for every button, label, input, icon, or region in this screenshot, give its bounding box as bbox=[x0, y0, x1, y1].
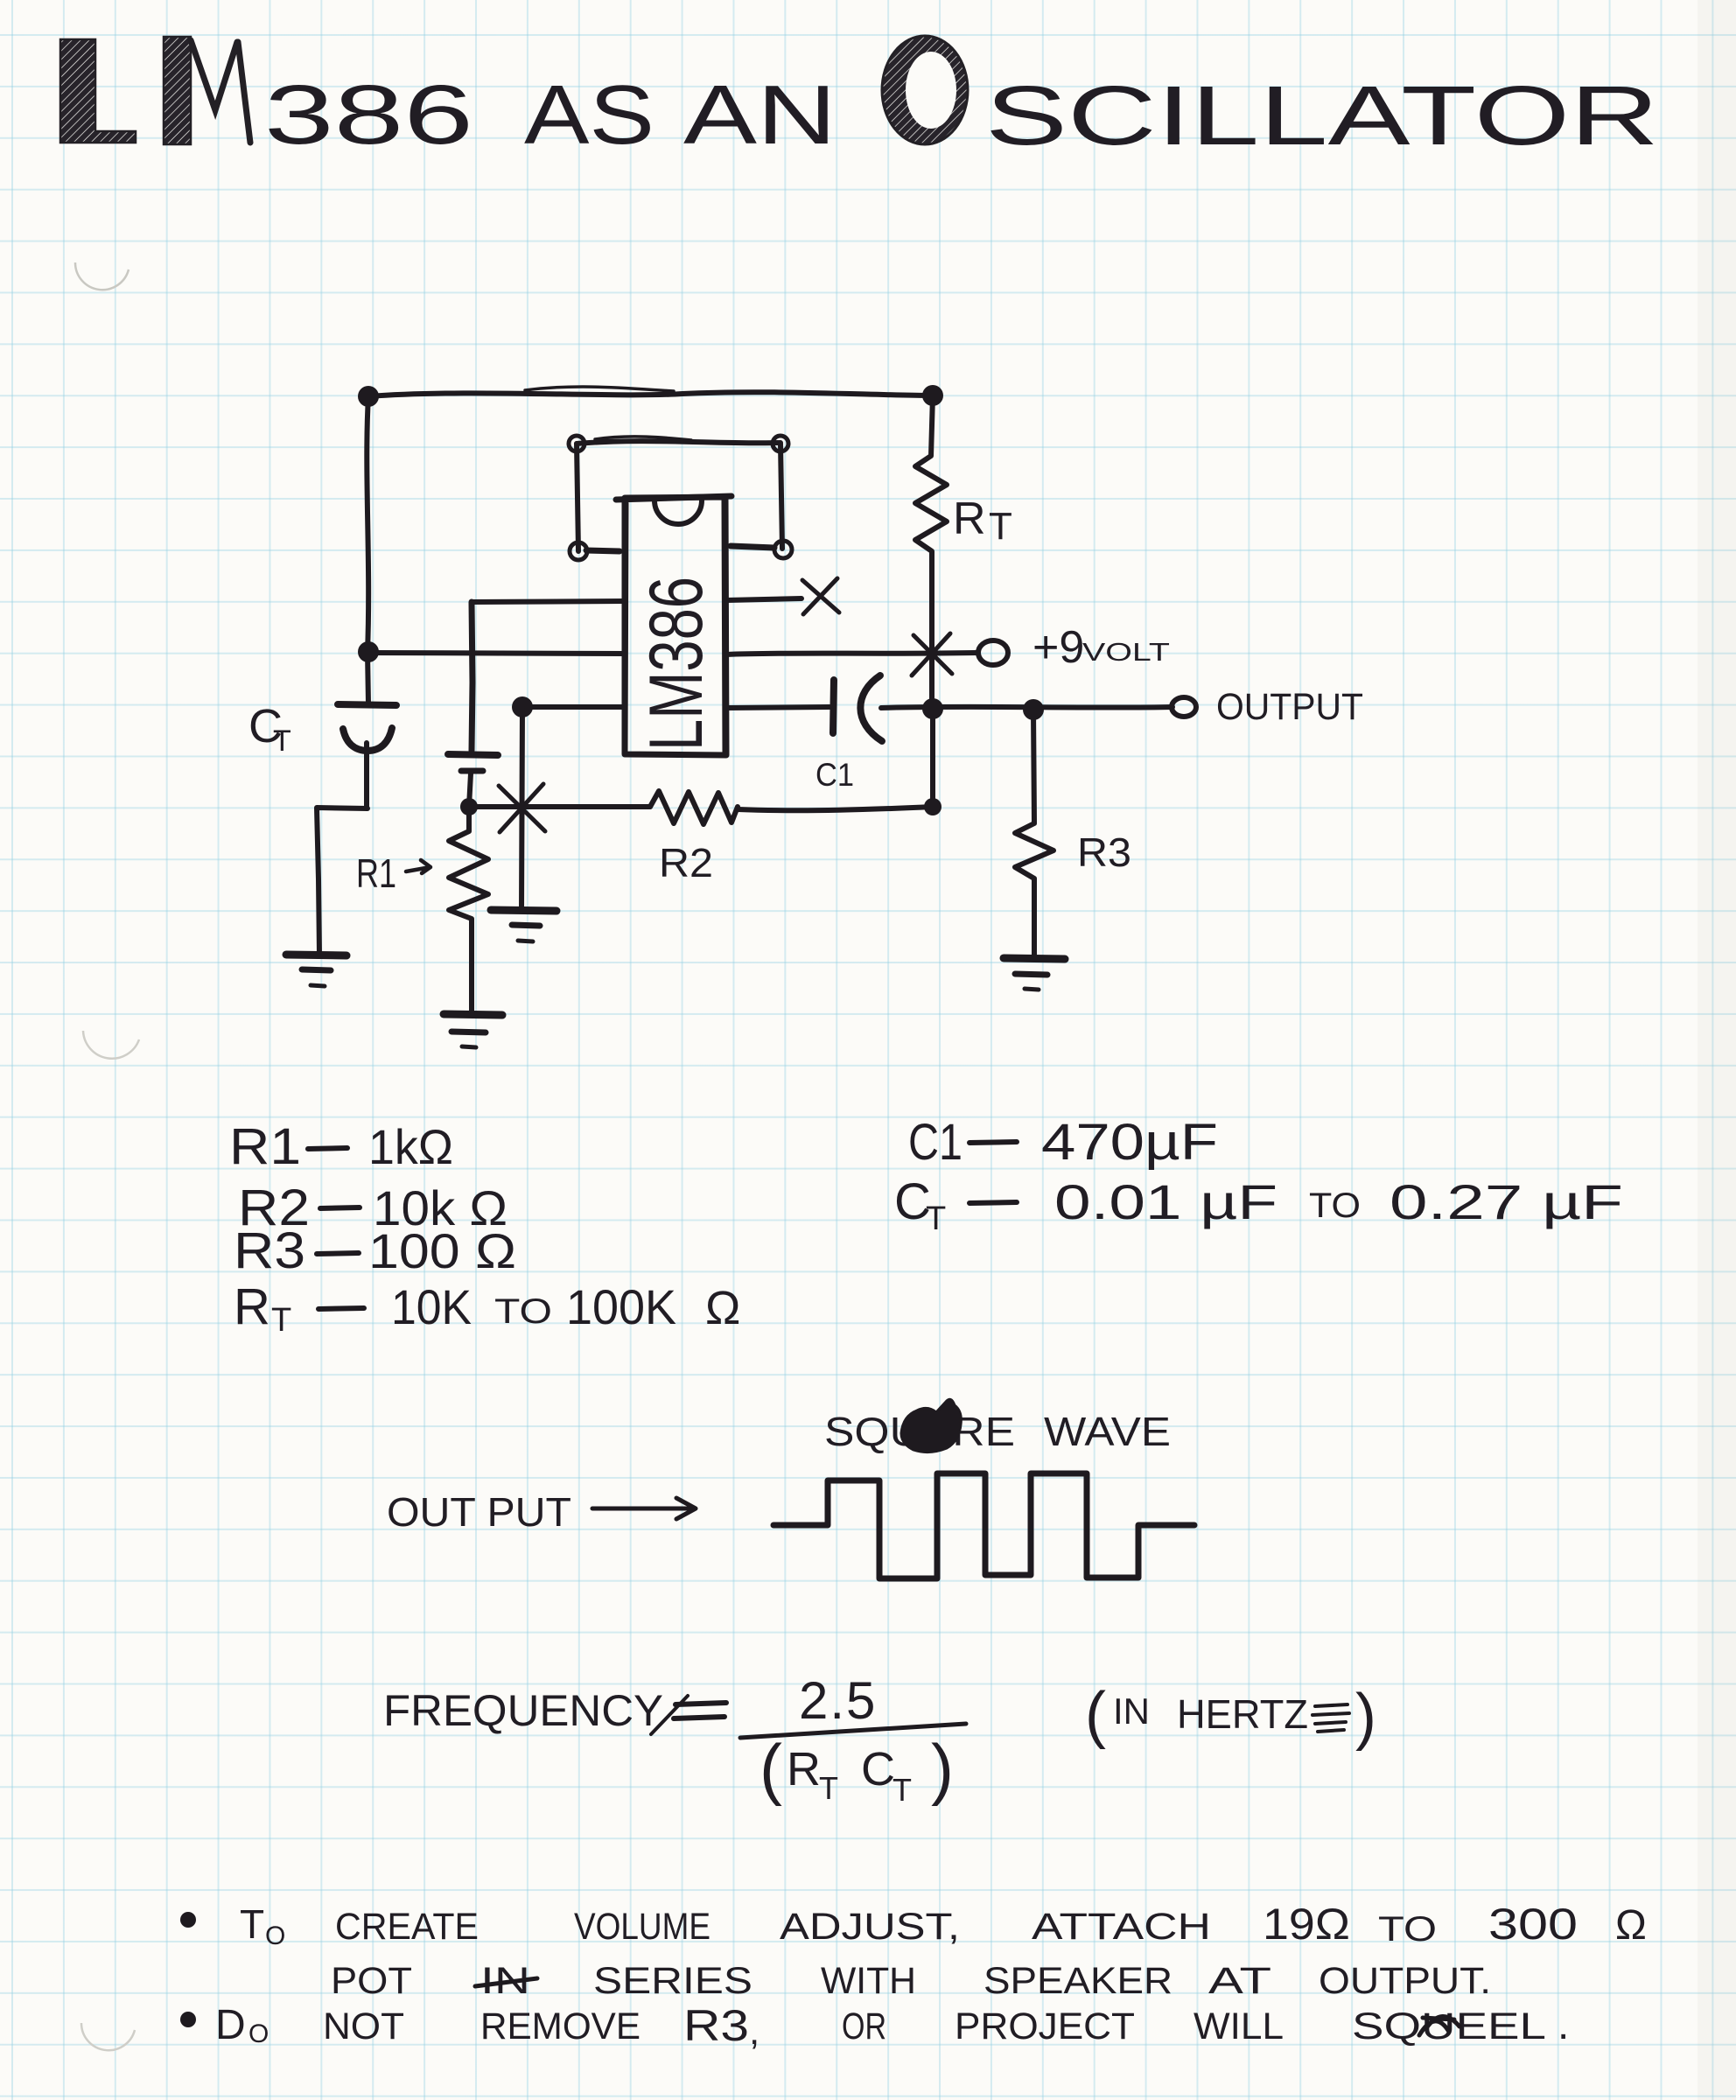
wire pin1 stub bbox=[586, 550, 619, 551]
svg-text:LM386: LM386 bbox=[634, 577, 718, 751]
svg-text:10K: 10K bbox=[391, 1279, 472, 1334]
svg-text:R3: R3 bbox=[683, 2001, 749, 2050]
wire pin5 output left bbox=[521, 704, 625, 710]
svg-text:NOT: NOT bbox=[323, 2005, 404, 2047]
svg-text:R: R bbox=[234, 1278, 270, 1335]
svg-text:300: 300 bbox=[1488, 1900, 1578, 1949]
svg-text:): ) bbox=[931, 1730, 954, 1807]
ground below CT bbox=[286, 955, 346, 955]
svg-text:0.27 µF: 0.27 µF bbox=[1389, 1174, 1623, 1229]
svg-text:VOLT: VOLT bbox=[1082, 639, 1170, 667]
svg-text:CREATE: CREATE bbox=[335, 1906, 479, 1948]
title drop cap L bbox=[60, 39, 136, 143]
title drop cap O bbox=[882, 36, 968, 144]
svg-text:T: T bbox=[273, 724, 291, 758]
svg-text:SERIES: SERIES bbox=[593, 1960, 752, 2002]
node pin8 lower ring bbox=[774, 541, 792, 558]
wire pin8 stub bbox=[731, 546, 774, 548]
svg-text:FREQUENCY: FREQUENCY bbox=[383, 1686, 663, 1735]
svg-text:OR: OR bbox=[842, 2005, 886, 2047]
svg-text:VOLUME: VOLUME bbox=[574, 1906, 710, 1948]
wire C1node vertical bbox=[930, 709, 935, 807]
svg-text:.: . bbox=[1557, 2002, 1569, 2048]
svg-text:+9: +9 bbox=[1032, 622, 1084, 673]
equals bbox=[674, 1703, 726, 1718]
node top-left junction bbox=[358, 386, 379, 407]
wire pin8x line bbox=[726, 598, 801, 600]
resistor R2 bbox=[650, 791, 738, 824]
svg-text:19Ω: 19Ω bbox=[1263, 1900, 1350, 1949]
svg-text:POT: POT bbox=[331, 1960, 412, 2002]
wire feedback horizontal bbox=[469, 804, 650, 809]
svg-text:R1: R1 bbox=[356, 850, 396, 896]
svg-text:2.5: 2.5 bbox=[799, 1671, 877, 1730]
svg-text:WILL: WILL bbox=[1193, 2005, 1284, 2047]
scribble blot bbox=[901, 1399, 961, 1452]
node top-right junction bbox=[922, 385, 943, 406]
wire C1 to output terminal bbox=[881, 707, 1172, 708]
terminal +9V bbox=[978, 640, 1008, 665]
node output R3 junction bbox=[1023, 699, 1044, 720]
node output-left junction bbox=[512, 696, 533, 717]
svg-text:WAVE: WAVE bbox=[1044, 1409, 1171, 1454]
svg-text:Ω: Ω bbox=[1615, 1902, 1647, 1949]
svg-text:HERTZ: HERTZ bbox=[1177, 1691, 1308, 1737]
arrow bbox=[592, 1498, 696, 1519]
capacitor CT bbox=[338, 704, 396, 705]
svg-text:ATTACH: ATTACH bbox=[1032, 1906, 1211, 1948]
svg-text:R3: R3 bbox=[1077, 829, 1131, 875]
IC notch bbox=[654, 500, 702, 524]
svg-text:REMOVE: REMOVE bbox=[480, 2005, 640, 2047]
terminal OUTPUT bbox=[1172, 697, 1196, 717]
bullet 1 bbox=[180, 1912, 196, 1928]
resistor RT bbox=[915, 395, 947, 709]
svg-text:OUT PUT: OUT PUT bbox=[387, 1489, 571, 1535]
svg-text:TO: TO bbox=[494, 1292, 552, 1331]
svg-text:T: T bbox=[819, 1770, 838, 1806]
svg-text:WITH: WITH bbox=[821, 1960, 916, 2002]
svg-text:D: D bbox=[215, 2002, 246, 2048]
svg-text:ADJUST,: ADJUST, bbox=[780, 1906, 960, 1948]
scan shading right edge bbox=[1697, 0, 1736, 2100]
svg-text:C: C bbox=[861, 1743, 895, 1795]
svg-text:OUTPUT.: OUTPUT. bbox=[1319, 1960, 1491, 2002]
svg-text:IN: IN bbox=[1113, 1690, 1150, 1732]
svg-text:TO: TO bbox=[1378, 1910, 1437, 1949]
capacitor bypass plates bbox=[448, 754, 498, 755]
square wave trace bbox=[773, 1473, 1194, 1578]
svg-text:R1: R1 bbox=[229, 1118, 301, 1175]
wire inner loop pins 1-8 bbox=[577, 441, 780, 444]
wire pin6 +9V line left bbox=[368, 653, 625, 654]
svg-text:C1: C1 bbox=[908, 1114, 962, 1171]
svg-text:100 Ω: 100 Ω bbox=[368, 1223, 516, 1278]
svg-text:AT: AT bbox=[1208, 1960, 1271, 2002]
svg-text:R2: R2 bbox=[659, 840, 713, 885]
svg-text:470µF: 470µF bbox=[1041, 1114, 1218, 1171]
svg-text:1kΩ: 1kΩ bbox=[368, 1119, 453, 1174]
node feedback-right junction bbox=[924, 798, 941, 815]
node pin1 ring bbox=[569, 436, 584, 451]
wire pin2 line bbox=[472, 601, 625, 602]
resistor R1 bbox=[449, 807, 488, 1013]
svg-text:Ω: Ω bbox=[705, 1282, 740, 1334]
node pin8 ring bbox=[773, 436, 788, 451]
svg-text:0.01 µF: 0.01 µF bbox=[1054, 1174, 1277, 1229]
wire top rail bbox=[368, 392, 933, 396]
svg-text:): ) bbox=[1355, 1682, 1376, 1752]
fraction bar bbox=[740, 1724, 966, 1738]
svg-text:AN: AN bbox=[683, 68, 836, 162]
hole punch bottom-left bbox=[81, 2023, 135, 2050]
svg-text:C1: C1 bbox=[815, 757, 854, 793]
svg-text:O: O bbox=[248, 2019, 269, 2048]
X mark feedback bbox=[499, 784, 545, 832]
hole punch middle-left bbox=[83, 1031, 139, 1059]
op-amp U1 LM386 body bbox=[625, 497, 726, 755]
svg-text:T: T bbox=[240, 1901, 264, 1947]
ground below R1 bbox=[444, 1014, 502, 1015]
svg-text:SQUEEL: SQUEEL bbox=[1352, 2005, 1546, 2047]
svg-text:(: ( bbox=[759, 1730, 782, 1807]
svg-text:OUTPUT: OUTPUT bbox=[1216, 686, 1363, 728]
svg-text:PROJECT: PROJECT bbox=[955, 2005, 1135, 2047]
node feedback-left junction bbox=[460, 798, 478, 815]
svg-text:386: 386 bbox=[264, 68, 473, 162]
wire R2 to C1 node bbox=[738, 807, 933, 810]
wire pin6 +9V line right bbox=[726, 653, 977, 654]
svg-text:T: T bbox=[271, 1302, 291, 1339]
node +9V left junction bbox=[358, 641, 379, 662]
svg-text:,: , bbox=[749, 2010, 759, 2053]
svg-text:R: R bbox=[787, 1743, 821, 1795]
hole punch top-left bbox=[75, 262, 129, 290]
svg-text:(: ( bbox=[1085, 1680, 1106, 1750]
svg-text:T: T bbox=[892, 1772, 912, 1808]
ground below feedback bbox=[491, 910, 556, 911]
svg-text:R: R bbox=[953, 493, 986, 544]
svg-text:100K: 100K bbox=[566, 1279, 676, 1334]
capacitor C1 bbox=[833, 680, 834, 733]
wire left vertical rail bbox=[367, 396, 368, 704]
X mark at +9V bbox=[912, 633, 952, 675]
svg-text:SPEAKER: SPEAKER bbox=[983, 1960, 1172, 2002]
wire feedback vertical bbox=[521, 707, 522, 910]
wire pin5 output to C1 bbox=[726, 707, 829, 708]
node output mid junction bbox=[922, 698, 943, 719]
resistor R3 bbox=[1015, 710, 1053, 956]
ground below R3 bbox=[1004, 958, 1065, 959]
svg-text:TO: TO bbox=[1309, 1186, 1361, 1225]
X mark pin bbox=[802, 578, 839, 614]
svg-text:AS: AS bbox=[524, 68, 654, 162]
bullet 2 bbox=[180, 2012, 196, 2027]
svg-text:O: O bbox=[265, 1921, 285, 1950]
svg-text:SCILLATOR: SCILLATOR bbox=[985, 69, 1659, 163]
svg-text:R3: R3 bbox=[234, 1222, 305, 1279]
title drop cap M bbox=[164, 37, 191, 144]
svg-text:T: T bbox=[989, 505, 1012, 548]
svg-text:T: T bbox=[926, 1200, 946, 1237]
label R1 arrow bbox=[406, 860, 430, 873]
wire pin2 vertical bbox=[472, 602, 472, 751]
node pin1 lower ring bbox=[570, 542, 587, 560]
